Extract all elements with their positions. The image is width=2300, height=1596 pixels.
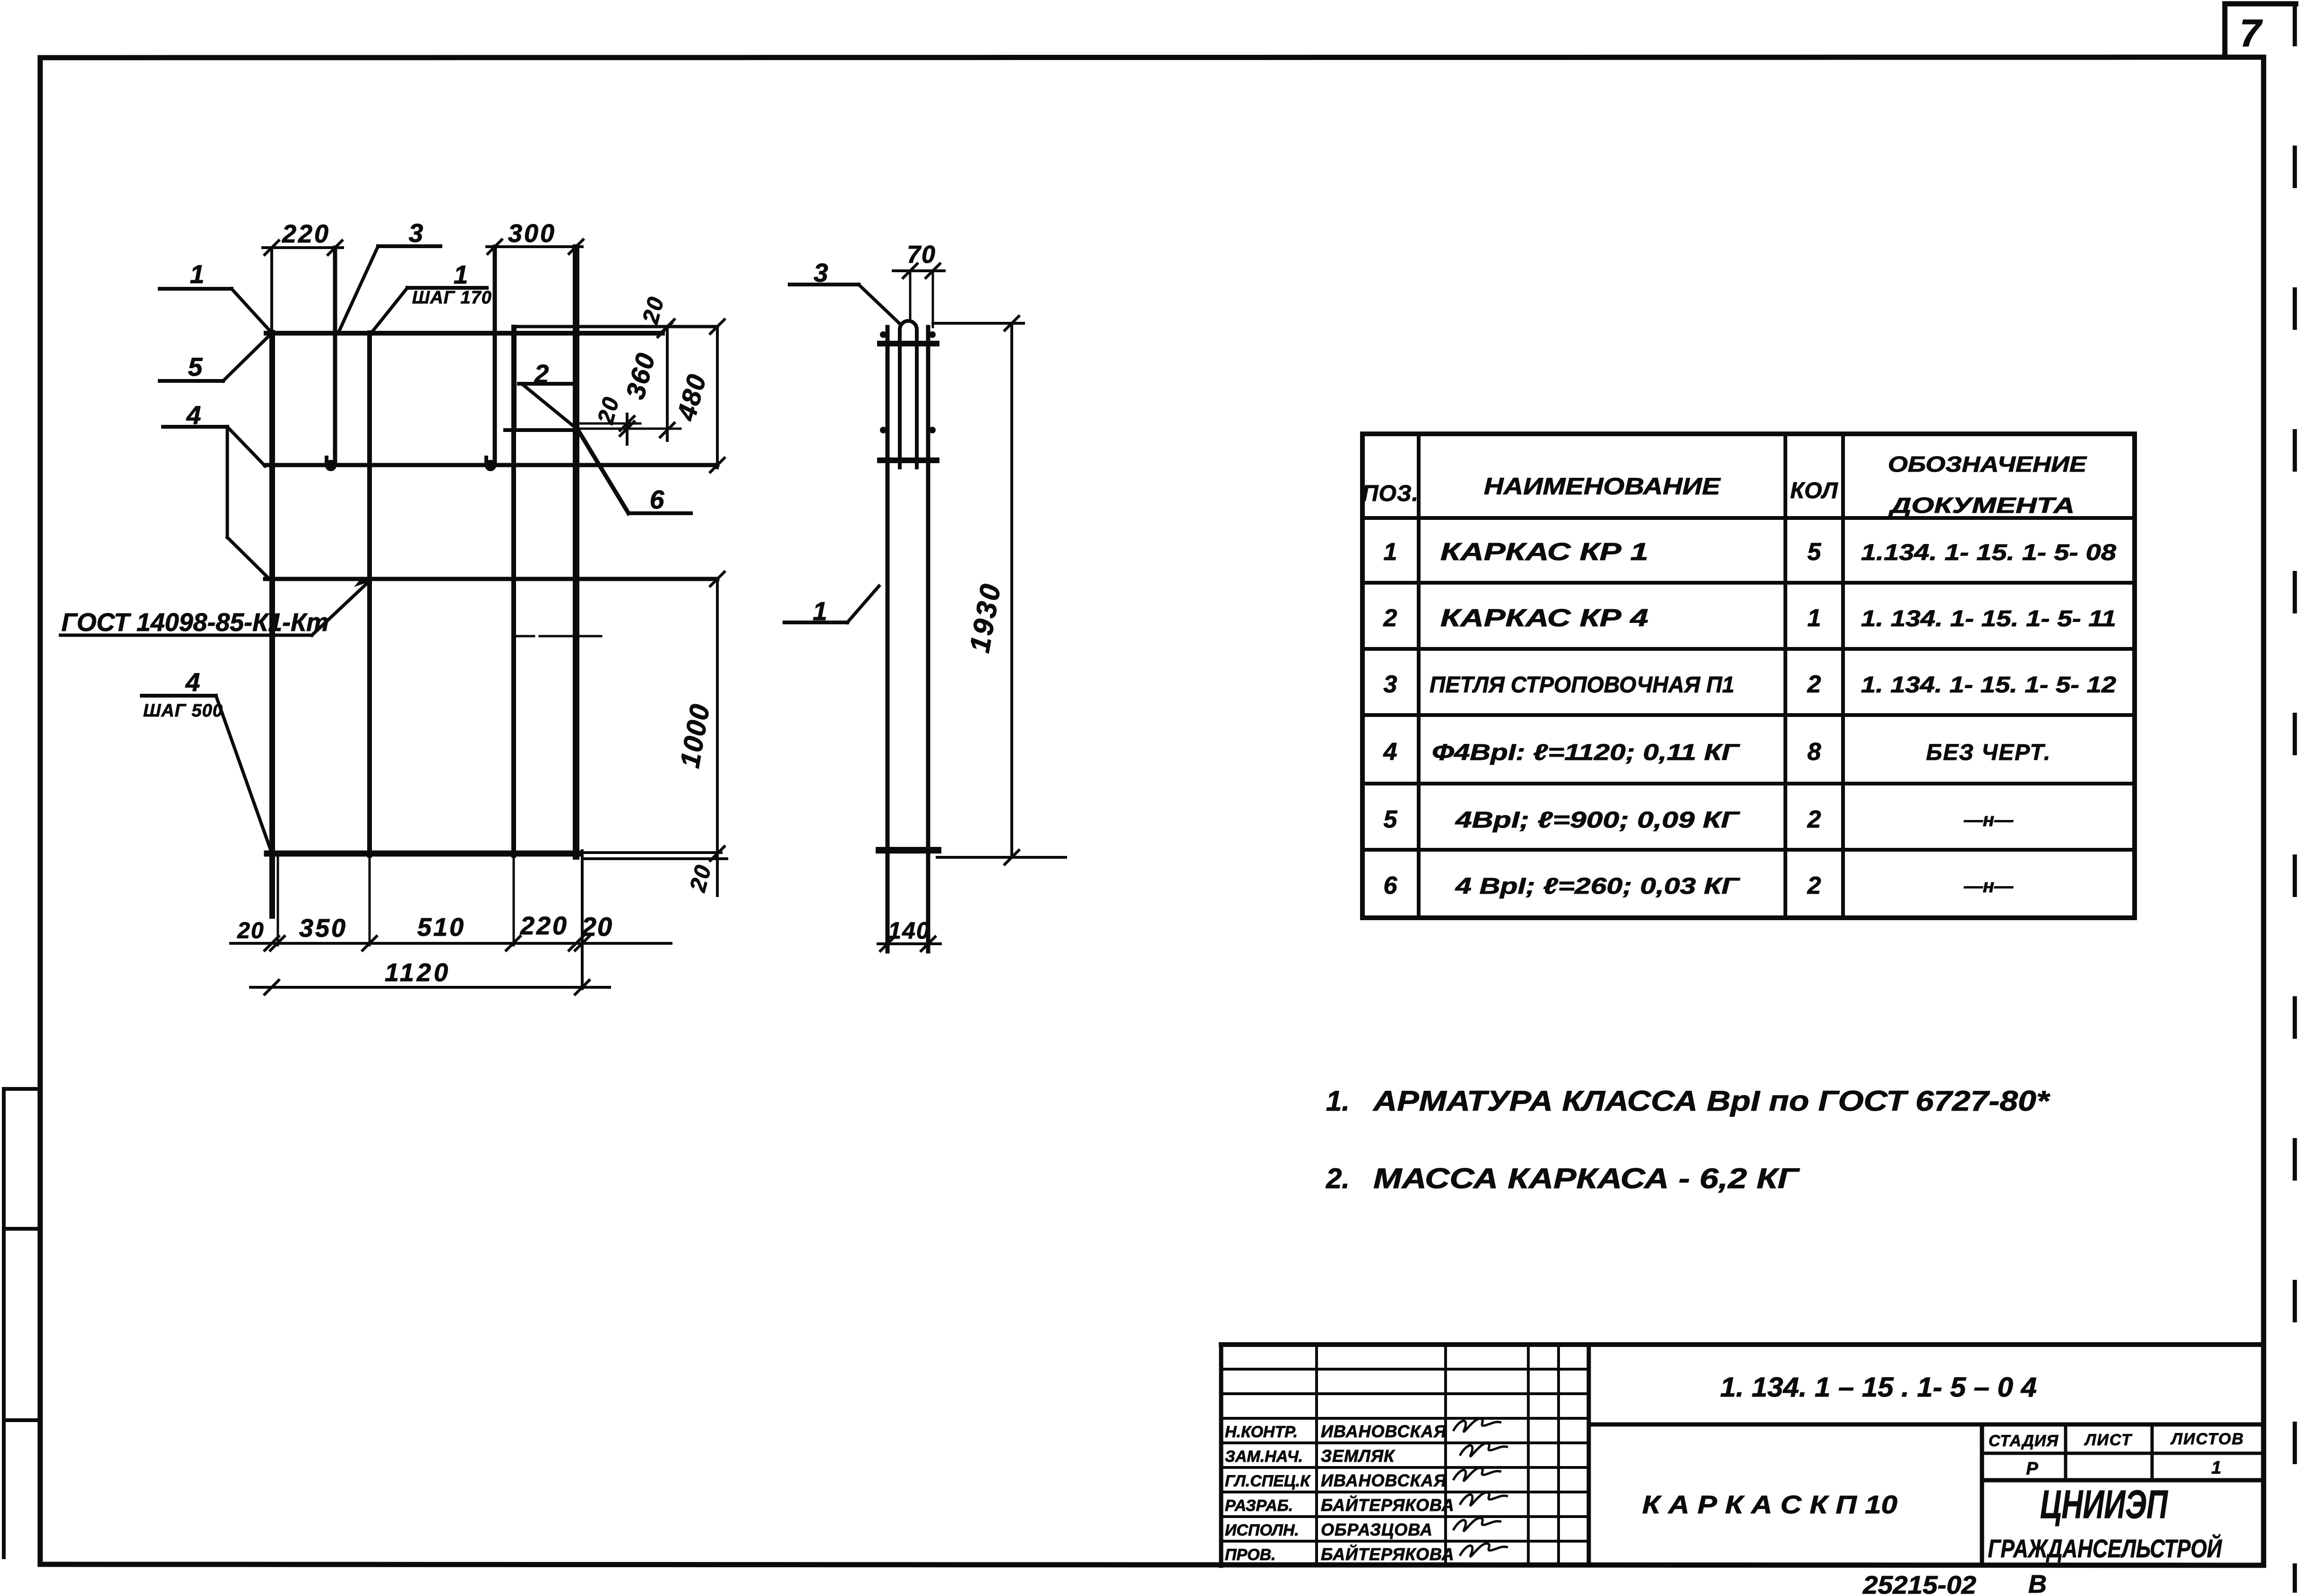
svg-text:ЦНИИЭП: ЦНИИЭП bbox=[2040, 1482, 2168, 1527]
dimension 480 bbox=[671, 319, 725, 473]
front view: KR4 bottom edge bbox=[505, 428, 576, 432]
side view: bottom cross bar bbox=[879, 847, 938, 854]
label 1 / шаг 170 leader bbox=[371, 260, 492, 333]
svg-text:ПЕТЛЯ СТРОПОВОЧНАЯ П1: ПЕТЛЯ СТРОПОВОЧНАЯ П1 bbox=[1430, 673, 1734, 698]
svg-text:70: 70 bbox=[907, 241, 936, 268]
front view: right edge thick bar V6 (pos 1) bbox=[573, 248, 579, 856]
label 6 leader bbox=[577, 429, 691, 514]
front view: second chord bar with hooks (pos 5) bbox=[265, 463, 717, 467]
label 5 leader bbox=[160, 336, 269, 381]
signature table grid bbox=[1221, 1345, 1589, 1566]
title block outer lines bbox=[1221, 1345, 2264, 1566]
svg-text:ИВАНОВСКАЯ: ИВАНОВСКАЯ bbox=[1321, 1422, 1447, 1441]
svg-text:1: 1 bbox=[2211, 1458, 2221, 1478]
svg-text:4 ВрI; ℓ=260; 0,03 КГ: 4 ВрI; ℓ=260; 0,03 КГ bbox=[1455, 874, 1740, 899]
dimension 220 extension line bbox=[270, 248, 273, 332]
front view: loop bar V4 (pos 3) with hook bbox=[485, 247, 496, 471]
front view: bottom chord bar (pos 4) bbox=[267, 851, 579, 857]
svg-text:КАРКАС КР 1: КАРКАС КР 1 bbox=[1440, 538, 1648, 566]
svg-text:20: 20 bbox=[581, 912, 613, 941]
svg-text:5: 5 bbox=[1384, 806, 1398, 833]
dimension 20 (top right) bbox=[638, 293, 673, 338]
bottom dimension row: 20 350 510 220 20 bbox=[231, 912, 671, 951]
svg-text:6: 6 bbox=[650, 485, 664, 514]
svg-text:АРМАТУРА КЛАССА ВрI по ГОС: АРМАТУРА КЛАССА ВрI по ГОСТ 6727-80* bbox=[1372, 1085, 2050, 1117]
svg-text:ПРОВ.: ПРОВ. bbox=[1225, 1546, 1276, 1564]
table row 5 bbox=[1384, 806, 2014, 833]
stage cells bbox=[1982, 1424, 2264, 1480]
svg-text:220: 220 bbox=[282, 220, 330, 248]
svg-text:4: 4 bbox=[185, 667, 200, 697]
svg-text:ОБОЗНАЧЕНИЕ: ОБОЗНАЧЕНИЕ bbox=[1888, 452, 2087, 476]
svg-text:КОЛ: КОЛ bbox=[1790, 478, 1838, 503]
svg-text:3: 3 bbox=[409, 218, 423, 248]
sheet number box 7 bbox=[2225, 4, 2296, 57]
table row 1 bbox=[1384, 538, 2117, 566]
svg-text:2: 2 bbox=[1807, 671, 1821, 698]
svg-text:ПОЗ.: ПОЗ. bbox=[1362, 481, 1419, 506]
svg-text:1: 1 bbox=[190, 259, 205, 289]
svg-text:1120: 1120 bbox=[385, 958, 451, 987]
svg-text:1: 1 bbox=[454, 260, 468, 289]
side view: top cross bar bbox=[880, 341, 937, 346]
svg-text:2: 2 bbox=[1807, 872, 1821, 899]
label 1 leader (left top) bbox=[160, 259, 271, 332]
svg-text:1000: 1000 bbox=[674, 701, 716, 770]
front view: KR4 reference line lower bbox=[579, 428, 681, 430]
front view: KR4 reference line upper bbox=[579, 423, 640, 425]
front view: third chord bar (pos 4) bbox=[265, 577, 717, 581]
svg-text:350: 350 bbox=[299, 914, 347, 942]
svg-text:8: 8 bbox=[1808, 738, 1821, 766]
svg-text:ЛИСТ: ЛИСТ bbox=[2084, 1431, 2133, 1449]
svg-text:1. 134. 1- 15. 1- 5- 11: 1. 134. 1- 15. 1- 5- 11 bbox=[1861, 606, 2116, 631]
table row 2 bbox=[1383, 604, 2116, 632]
svg-text:ЗЕМЛЯК: ЗЕМЛЯК bbox=[1321, 1446, 1396, 1466]
svg-text:Р: Р bbox=[2026, 1459, 2038, 1479]
svg-text:Ф4ВрI: ℓ=1120; 0,11 КГ: Ф4ВрI: ℓ=1120; 0,11 КГ bbox=[1432, 740, 1740, 765]
svg-text:6: 6 bbox=[1384, 872, 1398, 899]
label 4 leader with fork bbox=[163, 400, 267, 577]
dimension 1930 bbox=[933, 315, 1066, 865]
signature table labels bbox=[1225, 1422, 1455, 1564]
svg-text:РАЗРАБ.: РАЗРАБ. bbox=[1225, 1497, 1293, 1515]
svg-text:300: 300 bbox=[508, 219, 556, 248]
svg-text:2: 2 bbox=[1807, 806, 1821, 833]
dimension 1000 bbox=[674, 571, 725, 896]
svg-text:КАРКАС КР 4: КАРКАС КР 4 bbox=[1440, 604, 1648, 632]
svg-text:220: 220 bbox=[520, 912, 569, 940]
side view: middle cross bar bbox=[880, 457, 937, 463]
svg-text:4ВрI; ℓ=900; 0,09 КГ: 4ВрI; ℓ=900; 0,09 КГ bbox=[1455, 808, 1741, 833]
side view: chord bar dots bbox=[880, 331, 936, 433]
svg-text:К А Р К А С К П 10: К А Р К А С К П 10 bbox=[1642, 1491, 1897, 1519]
svg-text:—н—: —н— bbox=[1964, 876, 2014, 897]
svg-text:2.: 2. bbox=[1326, 1163, 1350, 1194]
svg-text:1.134. 1- 15. 1- 5- 08: 1.134. 1- 15. 1- 5- 08 bbox=[1861, 540, 2116, 565]
svg-text:1930: 1930 bbox=[964, 580, 1007, 655]
svg-text:2: 2 bbox=[1383, 604, 1397, 632]
table row 4 bbox=[1383, 738, 2051, 766]
dimension 220 bbox=[263, 220, 343, 256]
svg-text:БАЙТЕРЯКОВА: БАЙТЕРЯКОВА bbox=[1321, 1495, 1455, 1515]
label 3 leader (front) bbox=[338, 218, 440, 333]
svg-text:ИВАНОВСКАЯ: ИВАНОВСКАЯ bbox=[1321, 1471, 1447, 1490]
side view: lifting loop П1 (pos 3) bbox=[900, 321, 917, 469]
svg-text:ГОСТ 14098-85-К1-Кт: ГОСТ 14098-85-К1-Кт bbox=[61, 608, 329, 637]
svg-text:480: 480 bbox=[671, 371, 712, 424]
svg-text:СТАДИЯ: СТАДИЯ bbox=[1989, 1432, 2059, 1450]
svg-text:ШАГ 500: ШАГ 500 bbox=[143, 701, 223, 721]
svg-text:20: 20 bbox=[593, 394, 624, 427]
front view: vertical bar V1 (left edge, pos 1) bbox=[269, 333, 275, 916]
front view: V6 inner line extension bbox=[581, 851, 584, 989]
front view: bottom bar end thin lines bbox=[579, 853, 727, 859]
svg-text:20: 20 bbox=[638, 293, 669, 327]
label 3 leader (side) bbox=[790, 258, 899, 323]
label 4 / шаг 500 leader bbox=[142, 667, 271, 852]
svg-text:140: 140 bbox=[888, 917, 930, 944]
table row 6 bbox=[1384, 872, 2014, 899]
front view: top chord bar (pos 5) bbox=[266, 331, 663, 336]
svg-text:1.: 1. bbox=[1326, 1085, 1350, 1117]
specification table frame bbox=[1362, 434, 2135, 918]
side view: left bar bbox=[886, 327, 890, 951]
dimension 300 bbox=[487, 219, 584, 255]
svg-text:ОБРАЗЦОВА: ОБРАЗЦОВА bbox=[1321, 1520, 1433, 1539]
svg-text:—н—: —н— bbox=[1964, 810, 2014, 830]
svg-text:7: 7 bbox=[2240, 12, 2263, 55]
svg-text:ГРАЖДАНСЕЛЬСТРОЙ: ГРАЖДАНСЕЛЬСТРОЙ bbox=[1988, 1534, 2222, 1563]
svg-text:НАИМЕНОВАНИЕ: НАИМЕНОВАНИЕ bbox=[1484, 473, 1721, 500]
label 1 leader (side) bbox=[784, 586, 879, 626]
dimension 70 bbox=[893, 241, 944, 327]
svg-text:5: 5 bbox=[188, 352, 203, 381]
label GOST 14098-85-K1-Kt leader bbox=[60, 577, 368, 637]
svg-text:В: В bbox=[2028, 1570, 2047, 1596]
front view: KR4 left edge bbox=[513, 327, 517, 430]
svg-text:Н.КОНТР.: Н.КОНТР. bbox=[1225, 1423, 1298, 1441]
paper edge dashed line bbox=[2293, 4, 2297, 1593]
left margin stamp boxes bbox=[4, 1089, 40, 1557]
front view: section reference thin line bbox=[513, 635, 601, 638]
svg-text:4: 4 bbox=[1383, 738, 1397, 766]
front view: vertical bar V3 (pos 1) bbox=[367, 333, 372, 855]
svg-text:ДОКУМЕНТА: ДОКУМЕНТА bbox=[1888, 493, 2075, 518]
svg-text:ИСПОЛН.: ИСПОЛН. bbox=[1225, 1521, 1299, 1539]
svg-text:1. 134. 1 – 15 . 1- 5 – 0 4: 1. 134. 1 – 15 . 1- 5 – 0 4 bbox=[1720, 1372, 2037, 1403]
dimension 360 bbox=[620, 319, 675, 440]
svg-text:1. 134. 1- 15. 1- 5- 12: 1. 134. 1- 15. 1- 5- 12 bbox=[1861, 673, 2116, 698]
svg-text:ЗАМ.НАЧ.: ЗАМ.НАЧ. bbox=[1225, 1448, 1303, 1466]
front view: V1 inner extension line bbox=[277, 855, 279, 945]
svg-text:ШАГ 170: ШАГ 170 bbox=[412, 288, 492, 308]
svg-text:1: 1 bbox=[1808, 604, 1821, 632]
label 2 leader bbox=[519, 359, 576, 428]
front view: V3 extension line bbox=[369, 855, 371, 945]
svg-text:25215-02: 25215-02 bbox=[1862, 1571, 1976, 1596]
front view: KR4 top edge (pos 2) bbox=[515, 325, 717, 328]
svg-text:5: 5 bbox=[1808, 538, 1822, 566]
table row 3 bbox=[1384, 671, 2117, 698]
side view: right bar bbox=[926, 327, 930, 951]
front view: vertical bar V5 (pos 1) bbox=[511, 327, 516, 855]
svg-text:3: 3 bbox=[1384, 671, 1397, 698]
dimension 20 (middle) bbox=[593, 394, 635, 444]
svg-text:20: 20 bbox=[237, 918, 264, 943]
svg-text:510: 510 bbox=[417, 913, 465, 941]
front view: loop bar V2 (pos 3) with hook bbox=[325, 248, 336, 471]
svg-text:20: 20 bbox=[685, 862, 716, 895]
svg-text:ГЛ.СПЕЦ.К: ГЛ.СПЕЦ.К bbox=[1225, 1472, 1311, 1490]
svg-text:1: 1 bbox=[1384, 538, 1397, 566]
svg-text:ЛИСТОВ: ЛИСТОВ bbox=[2170, 1430, 2244, 1448]
bottom dimension row: 1120 bbox=[250, 958, 610, 995]
dimension 140 bbox=[878, 917, 940, 952]
svg-text:БЕЗ ЧЕРТ.: БЕЗ ЧЕРТ. bbox=[1926, 740, 2051, 765]
svg-text:МАССА КАРКАСА - 6,2 КГ: МАССА КАРКАСА - 6,2 КГ bbox=[1373, 1163, 1800, 1194]
table header texts bbox=[1362, 452, 2087, 518]
svg-text:БАЙТЕРЯКОВА: БАЙТЕРЯКОВА bbox=[1321, 1544, 1455, 1564]
front view: V5 extension line bbox=[513, 855, 515, 945]
signatures squiggles bbox=[1453, 1419, 1508, 1556]
svg-text:360: 360 bbox=[620, 349, 661, 402]
